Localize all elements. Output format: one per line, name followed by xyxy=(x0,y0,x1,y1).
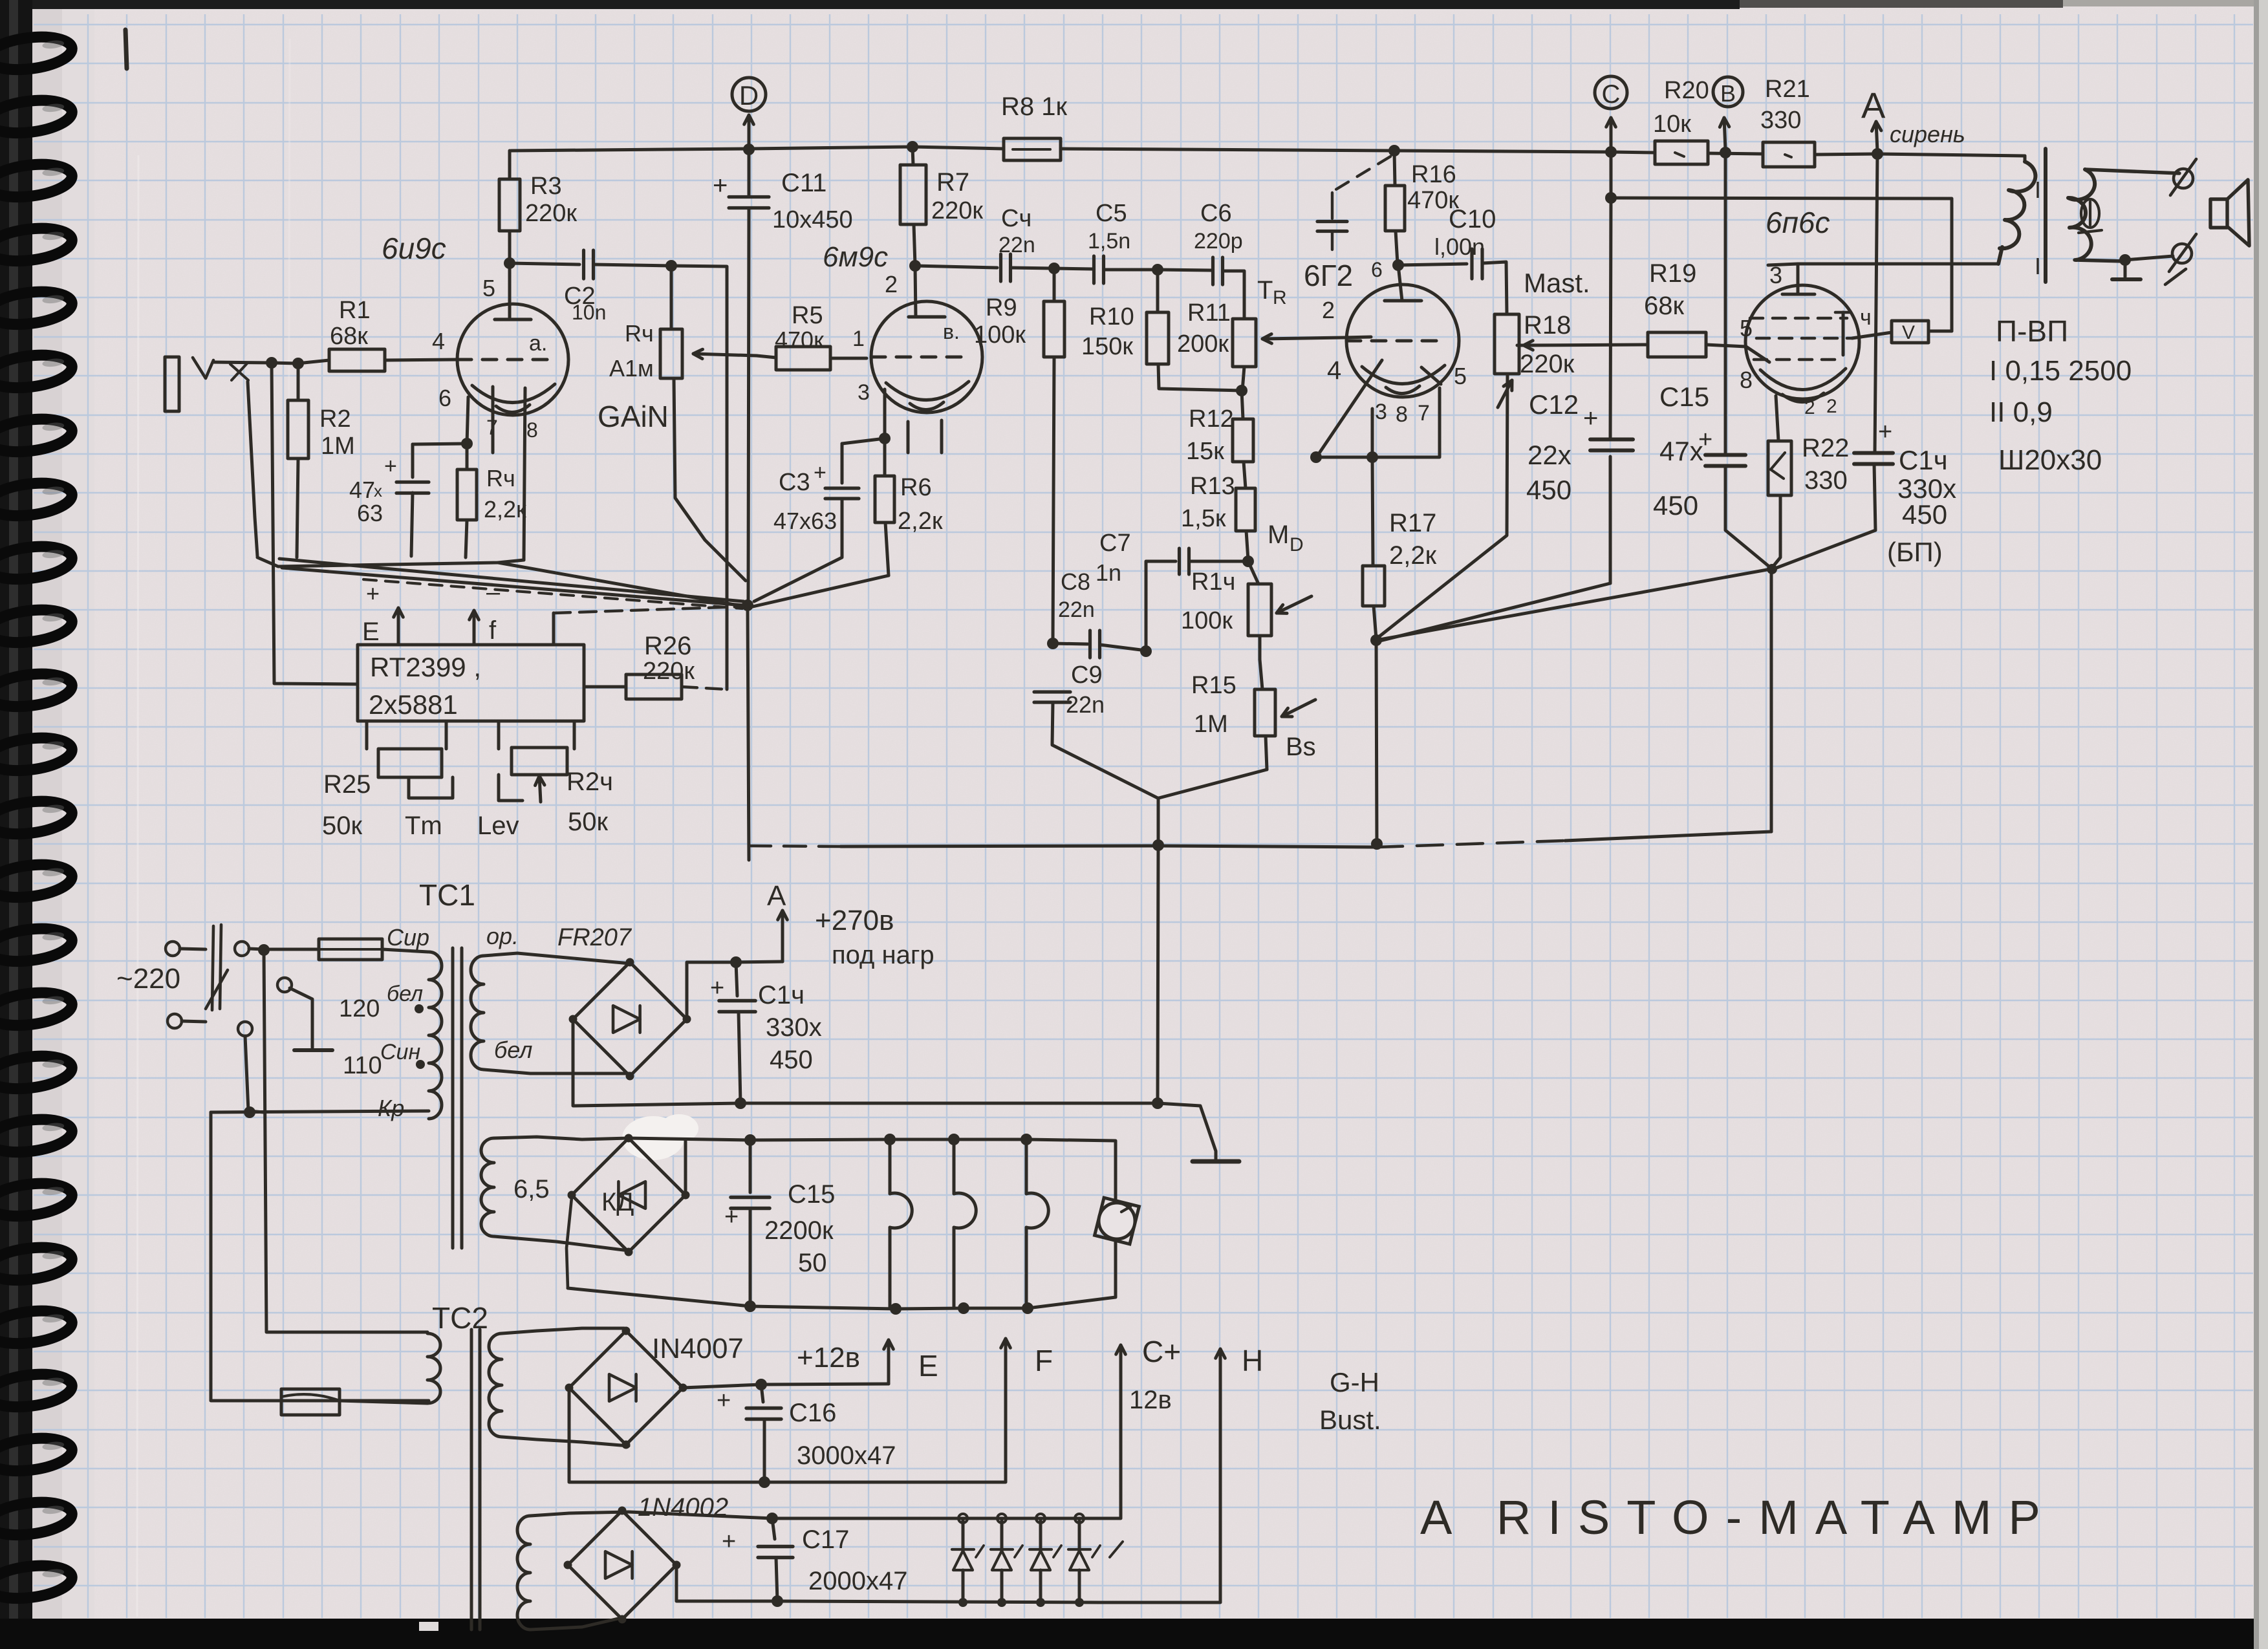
speaker terminal bottom xyxy=(2125,234,2196,285)
wire 6G2 cathode pins xyxy=(1316,388,1440,457)
svg-text:бел: бел xyxy=(387,982,423,1006)
svg-text:8: 8 xyxy=(526,418,538,442)
IC RT2399 box xyxy=(358,645,584,721)
svg-text:2,2к: 2,2к xyxy=(484,496,526,523)
junction ground bus xyxy=(735,1097,1163,1109)
svg-text:R6: R6 xyxy=(900,474,932,501)
svg-text:8: 8 xyxy=(1740,367,1753,393)
potentiometer R11 TR 200k xyxy=(1177,276,1344,391)
ground main xyxy=(1158,1103,1239,1161)
svg-text:E: E xyxy=(918,1349,938,1383)
svg-text:R1: R1 xyxy=(339,297,371,324)
svg-text:47x: 47x xyxy=(1659,436,1703,466)
node C xyxy=(1595,76,1627,149)
svg-text:D: D xyxy=(739,80,759,111)
resistor R17 xyxy=(1363,509,1437,606)
rectifier bridge 1N4007 xyxy=(565,1327,687,1449)
spiral coils xyxy=(0,33,74,74)
svg-text:1,5к: 1,5к xyxy=(1181,505,1226,532)
wire center down to ground bus xyxy=(1158,845,1158,1103)
arrow E 12v xyxy=(761,1340,938,1385)
wire R11 wiper to 6G2 grid xyxy=(1344,337,1371,338)
capacitor C12 xyxy=(1526,153,1633,505)
svg-text:2: 2 xyxy=(1804,397,1815,418)
junction E rail xyxy=(755,1379,767,1390)
svg-text:6,5: 6,5 xyxy=(513,1175,550,1203)
svg-text:RT2399 ,: RT2399 , xyxy=(370,652,481,682)
svg-text:C12: C12 xyxy=(1529,389,1579,420)
tap 120 terminal xyxy=(277,978,332,1050)
wire pin8 down xyxy=(493,387,525,560)
svg-text:A RISTO-MATAMP: A RISTO-MATAMP xyxy=(1420,1491,2057,1544)
svg-text:450: 450 xyxy=(1526,475,1571,505)
svg-text:R21: R21 xyxy=(1765,76,1810,103)
capacitor C8 xyxy=(1053,568,1146,658)
svg-text:C3: C3 xyxy=(779,469,810,496)
wire input to RT2399 xyxy=(272,363,358,684)
speaker icon xyxy=(2210,180,2249,246)
wire pin4 to V box xyxy=(1852,332,1892,338)
svg-text:6: 6 xyxy=(1371,258,1383,281)
rectifier bridge FR207 xyxy=(569,958,691,1081)
scanner top edge xyxy=(0,0,1740,9)
node D xyxy=(732,78,766,147)
svg-text:B: B xyxy=(1720,80,1736,107)
wire tone stack to ground node xyxy=(1052,702,1267,846)
svg-text:R11: R11 xyxy=(1187,299,1231,327)
svg-text:l,00n: l,00n xyxy=(1434,233,1485,260)
svg-text:TC1: TC1 xyxy=(419,878,475,912)
node C4 out xyxy=(1048,263,1060,274)
svg-text:+: + xyxy=(366,580,380,607)
resistor R7 xyxy=(900,147,983,265)
svg-text:IN4007: IN4007 xyxy=(652,1333,744,1364)
svg-text:R15: R15 xyxy=(1191,672,1237,699)
label tube V1 6i9s xyxy=(382,232,446,265)
wire cathode net down xyxy=(1770,572,1773,832)
svg-text:Сuн: Сuн xyxy=(380,1040,420,1064)
wire R18 bottom xyxy=(1376,374,1507,639)
svg-text:C15: C15 xyxy=(1659,382,1709,412)
wire R5 to GAIN wiper xyxy=(757,356,776,358)
node 6G2 below xyxy=(1310,451,1378,463)
junction mains xyxy=(258,944,270,956)
stray pen mark top-left xyxy=(125,30,127,69)
node A arrow xyxy=(1861,85,1886,151)
svg-text:1,5n: 1,5n xyxy=(1088,229,1130,253)
svg-text:4: 4 xyxy=(432,328,445,354)
svg-text:R19: R19 xyxy=(1649,259,1696,288)
svg-text:C: C xyxy=(1602,80,1621,109)
svg-text:C17: C17 xyxy=(802,1525,849,1554)
svg-text:2x5881: 2x5881 xyxy=(369,689,458,720)
svg-text:бел: бел xyxy=(494,1037,532,1063)
wire bottom LED rail xyxy=(676,1362,1220,1602)
label tube V2 6m9s xyxy=(823,241,888,273)
svg-text:КД: КД xyxy=(601,1188,634,1216)
junction C17 bottom xyxy=(772,1595,783,1607)
scanner right edge xyxy=(2258,0,2268,1649)
capacitor C2 xyxy=(510,250,671,324)
junction heater bottom xyxy=(744,1300,1033,1315)
svg-text:68к: 68к xyxy=(330,323,368,350)
capacitor C7 xyxy=(1096,530,1247,650)
svg-text:V: V xyxy=(1902,322,1915,343)
heater rail bottom xyxy=(567,1198,1116,1309)
capacitor C14 output 330x450 xyxy=(1773,154,1956,569)
svg-text:D: D xyxy=(1290,534,1304,555)
node 6G2 grid xyxy=(1392,259,1404,271)
junction bias bus xyxy=(1152,838,1383,851)
svg-text:x: x xyxy=(374,481,382,501)
resistor R22 330 xyxy=(1768,396,1849,568)
svg-text:C9: C9 xyxy=(1071,662,1103,689)
svg-text:П-ВП: П-ВП xyxy=(1996,314,2068,348)
svg-text:6: 6 xyxy=(438,385,451,411)
capacitor C16 xyxy=(717,1385,896,1482)
wire bridge1 plus xyxy=(687,962,736,1019)
wire V2 cathode to bias node xyxy=(753,576,889,607)
svg-text:Cч: Cч xyxy=(1001,205,1031,232)
junction LED rail xyxy=(766,1513,778,1524)
svg-text:2,2к: 2,2к xyxy=(898,508,943,535)
capacitor C11 xyxy=(713,151,853,601)
svg-text:10n: 10n xyxy=(572,301,606,324)
pilot lamp xyxy=(1095,1198,1139,1244)
wire jack tap down xyxy=(248,382,257,556)
svg-text:Bust.: Bust. xyxy=(1319,1405,1381,1435)
tube heater loops xyxy=(890,1139,1048,1308)
svg-text:220к: 220к xyxy=(643,658,695,685)
svg-text:7: 7 xyxy=(1418,401,1430,426)
svg-text:5: 5 xyxy=(1454,363,1467,389)
svg-text:330x: 330x xyxy=(766,1013,822,1042)
resistor R13 xyxy=(1181,462,1304,560)
junction heater top xyxy=(744,1134,1032,1146)
svg-text:Кр: Кр xyxy=(378,1095,404,1121)
svg-text:R22: R22 xyxy=(1802,434,1849,462)
mains plug terminals xyxy=(166,942,206,1028)
svg-text:R12: R12 xyxy=(1189,405,1234,433)
svg-text:10к: 10к xyxy=(1653,111,1691,138)
tube V2 heater stubs xyxy=(908,420,942,453)
fuse xyxy=(319,924,429,960)
svg-text:4: 4 xyxy=(1327,356,1341,385)
node C5 out xyxy=(1152,264,1163,275)
wire pin3 to OT xyxy=(1768,264,1998,265)
label Mast xyxy=(1524,268,1590,298)
wire pin4 diagonal xyxy=(1317,360,1382,456)
svg-text:10x450: 10x450 xyxy=(772,206,853,233)
node R13 R14 xyxy=(1242,555,1254,567)
svg-text:1n: 1n xyxy=(1096,559,1121,586)
transformer OT secondary xyxy=(2035,169,2179,279)
svg-text:110: 110 xyxy=(343,1052,382,1079)
junction tap xyxy=(244,1106,255,1118)
svg-text:22n: 22n xyxy=(1066,691,1105,718)
svg-text:f: f xyxy=(489,616,497,645)
arrow E supply xyxy=(362,580,403,646)
svg-text:T: T xyxy=(1257,276,1273,305)
svg-text:H: H xyxy=(1242,1344,1263,1377)
svg-text:a.: a. xyxy=(529,331,547,356)
resistor R16 xyxy=(1385,152,1459,264)
svg-text:R10: R10 xyxy=(1089,303,1134,330)
capacitor C6 xyxy=(1158,200,1244,319)
svg-text:220к: 220к xyxy=(931,197,983,224)
transformer TC2 secondary 2 xyxy=(517,1512,629,1630)
svg-text:GAiN: GAiN xyxy=(598,400,669,433)
svg-text:2: 2 xyxy=(1826,396,1837,417)
svg-text:C1ч: C1ч xyxy=(1899,445,1948,475)
svg-text:22n: 22n xyxy=(999,233,1035,257)
svg-text:3: 3 xyxy=(858,380,870,405)
label core size xyxy=(1998,444,2102,476)
junction C16 bottom xyxy=(759,1476,770,1488)
svg-text:15к: 15к xyxy=(1186,438,1224,465)
resistor R3 xyxy=(499,151,577,263)
transformer TC2 core xyxy=(471,1330,480,1630)
node below R11 xyxy=(1236,385,1247,396)
potentiometer R15 1M xyxy=(1191,660,1316,770)
svg-text:120: 120 xyxy=(339,995,380,1022)
svg-text:R9: R9 xyxy=(986,294,1017,321)
wire 6G2 down to node xyxy=(1372,457,1376,639)
label tube V4 6p6s xyxy=(1766,206,1830,239)
svg-text:M: M xyxy=(1268,521,1289,549)
svg-text:R17: R17 xyxy=(1389,509,1436,537)
svg-text:II 0,9: II 0,9 xyxy=(1989,396,2053,428)
label G-H Bust xyxy=(1319,1367,1381,1435)
transformer TC1 secondary 6.5 xyxy=(481,1137,629,1251)
tube V1 6i9s xyxy=(432,263,568,442)
svg-text:2200к: 2200к xyxy=(764,1216,834,1245)
svg-text:220p: 220p xyxy=(1194,229,1243,253)
svg-text:G-H: G-H xyxy=(1330,1367,1379,1397)
svg-text:8: 8 xyxy=(1396,402,1408,427)
arrow C+ 12v xyxy=(1116,1335,1181,1414)
svg-text:Lev: Lev xyxy=(477,812,519,840)
transformer TC1 core xyxy=(453,948,462,1248)
scanner bottom edge xyxy=(0,1619,2268,1649)
wire fuse to TC1 xyxy=(382,949,428,952)
capacitor C3 47x63 xyxy=(754,438,885,601)
svg-text:50: 50 xyxy=(798,1249,827,1277)
svg-text:+: + xyxy=(713,171,728,200)
svg-text:+: + xyxy=(384,454,397,479)
svg-text:C8: C8 xyxy=(1061,568,1090,595)
svg-text:+: + xyxy=(722,1528,736,1555)
wire C2 to corner xyxy=(671,266,727,689)
svg-text:–: – xyxy=(486,579,501,606)
tube V2 6m9s xyxy=(852,266,982,413)
svg-text:Сир: Сир xyxy=(387,924,429,951)
svg-text:ч: ч xyxy=(1860,305,1872,330)
svg-text:450: 450 xyxy=(1902,499,1947,530)
capacitor C15 47x450 xyxy=(1653,154,1771,568)
wire R18 wiper to R19 xyxy=(1524,341,1648,350)
capacitor C9 xyxy=(1034,662,1105,718)
node B xyxy=(1713,77,1743,150)
resistor R19 xyxy=(1644,259,1753,357)
capacitor C17 xyxy=(722,1518,907,1601)
svg-text:1: 1 xyxy=(852,327,865,351)
capacitor C15 psu 2200x50 xyxy=(724,1140,835,1306)
svg-text:22n: 22n xyxy=(1058,598,1095,622)
pin5 into 6p6s xyxy=(1746,347,1769,362)
resistor R2 xyxy=(288,363,355,557)
resistor R20 xyxy=(1653,77,1709,164)
svg-text:330: 330 xyxy=(1804,466,1848,495)
capacitor C1 47x63 xyxy=(349,444,467,556)
node cathode net xyxy=(1767,564,1777,574)
svg-text:+: + xyxy=(717,1387,731,1414)
potentiometer R24 Lev 50k xyxy=(477,721,613,840)
node stage1 plate xyxy=(504,257,515,269)
svg-text:~220: ~220 xyxy=(116,963,180,995)
node OT secondary xyxy=(2119,254,2131,266)
resistor R1 xyxy=(329,297,457,371)
arrow F psu xyxy=(1001,1339,1053,1377)
svg-text:50к: 50к xyxy=(568,808,608,836)
wire node to cathode net xyxy=(1376,569,1771,640)
svg-text:C5: C5 xyxy=(1096,200,1127,227)
transformer TC1 primary xyxy=(339,952,442,1121)
svg-text:6п6с: 6п6с xyxy=(1766,206,1830,239)
svg-text:FR207: FR207 xyxy=(557,924,632,951)
junction C14 psu top xyxy=(730,956,742,968)
label winding I xyxy=(1989,355,2132,387)
svg-text:1M: 1M xyxy=(321,433,355,460)
svg-text:Bs: Bs xyxy=(1286,733,1316,761)
svg-text:C11: C11 xyxy=(781,169,826,197)
correction fluid blob xyxy=(622,1116,684,1160)
svg-text:C7: C7 xyxy=(1099,530,1131,557)
transformer OT primary xyxy=(1998,156,2041,264)
svg-text:A1м: A1м xyxy=(609,355,654,382)
tube V4 6p6s xyxy=(1740,262,1872,418)
svg-text:R5: R5 xyxy=(792,302,823,329)
svg-text:R25: R25 xyxy=(323,770,371,799)
bias node junction xyxy=(742,599,753,611)
svg-text:E: E xyxy=(362,618,380,646)
transformer TC2 primary xyxy=(340,1333,440,1403)
potentiometer R18 Master 220k xyxy=(1495,311,1575,407)
wire feedback line xyxy=(1611,198,1952,331)
svg-text:под нагр: под нагр xyxy=(832,941,934,969)
svg-text:470к: 470к xyxy=(775,327,824,353)
svg-text:450: 450 xyxy=(770,1046,813,1074)
svg-text:(БП): (БП) xyxy=(1887,537,1943,567)
svg-text:100к: 100к xyxy=(974,321,1026,349)
svg-text:Rч: Rч xyxy=(486,465,515,491)
node C2 out xyxy=(665,260,677,272)
potentiometer R5 470k wire xyxy=(830,357,867,360)
resistor R26 xyxy=(584,632,727,699)
resistor R12 xyxy=(1186,391,1253,465)
wire top B+ bus xyxy=(511,147,2025,156)
wire big loop left xyxy=(211,1112,429,1401)
svg-text:3000x47: 3000x47 xyxy=(797,1441,896,1470)
node cathode V2 xyxy=(879,433,891,444)
wire C12 bottom diagonal xyxy=(1377,457,1610,641)
svg-text:+: + xyxy=(814,460,826,485)
resistor R9 xyxy=(974,268,1064,642)
paper crease xyxy=(137,155,138,1617)
svg-text:1M: 1M xyxy=(1194,711,1228,738)
svg-text:2: 2 xyxy=(1322,297,1335,323)
svg-text:R16: R16 xyxy=(1411,161,1456,188)
transformer TC1 secondary HV xyxy=(471,923,632,1073)
svg-text:R2ч: R2ч xyxy=(567,768,613,796)
svg-text:50к: 50к xyxy=(322,812,362,840)
svg-text:A: A xyxy=(1861,85,1886,125)
svg-text:R8 1к: R8 1к xyxy=(1001,92,1067,121)
svg-text:330: 330 xyxy=(1760,107,1801,134)
wire fan to bias node xyxy=(279,559,745,609)
svg-text:R13: R13 xyxy=(1190,473,1235,500)
svg-text:F: F xyxy=(1035,1344,1053,1377)
speaker terminal top xyxy=(2170,159,2196,195)
svg-text:6м9с: 6м9с xyxy=(823,241,888,273)
resistor R8 xyxy=(1001,92,1067,160)
capacitor C13 shield xyxy=(1317,156,1390,250)
LED indicators xyxy=(952,1514,1123,1607)
junction dots input xyxy=(266,357,304,369)
capacitor C14 psu xyxy=(710,962,822,1103)
resistor R4 cathode 2.2k xyxy=(457,397,526,557)
wire plate node to C4 xyxy=(915,266,997,268)
wire RT right pin xyxy=(554,607,744,644)
capacitor C4 xyxy=(999,205,1054,281)
node C8 junction left xyxy=(1047,638,1059,649)
svg-text:6и9с: 6и9с xyxy=(382,232,446,265)
svg-text:Mast.: Mast. xyxy=(1524,268,1590,298)
wire switch2 down xyxy=(245,1036,264,1112)
svg-text:5: 5 xyxy=(482,275,495,301)
arrow A plus270 xyxy=(736,880,934,969)
svg-text:ор.: ор. xyxy=(486,923,519,949)
potentiometer R14 100k xyxy=(1181,561,1312,660)
svg-text:R20: R20 xyxy=(1664,77,1709,104)
svg-text:2: 2 xyxy=(885,271,898,297)
wire node to bus xyxy=(1376,640,1377,846)
svg-text:+12в: +12в xyxy=(797,1342,860,1374)
junction dots on top bus xyxy=(743,141,1883,160)
svg-text:I: I xyxy=(2035,177,2041,203)
label sirene xyxy=(1890,121,1965,147)
wire switch to fuse xyxy=(249,949,319,949)
svg-text:R2: R2 xyxy=(319,405,351,433)
label 1N4007 xyxy=(652,1333,744,1364)
svg-text:Ш20x30: Ш20x30 xyxy=(1998,444,2102,476)
svg-text:C+: C+ xyxy=(1142,1335,1181,1368)
wire bias bus bottom xyxy=(749,832,1771,847)
notebook spine black edge xyxy=(0,0,32,1649)
input jack xyxy=(165,357,329,411)
label P-VP xyxy=(1996,314,2068,348)
rectifier bridge 1N4002 xyxy=(564,1507,681,1624)
mains switch xyxy=(206,925,252,1036)
svg-text:+: + xyxy=(1583,404,1598,433)
title ARISTO-MATAMP xyxy=(1420,1491,2057,1544)
svg-text:C6: C6 xyxy=(1200,200,1232,227)
svg-text:63: 63 xyxy=(357,500,383,526)
wire bridge1 minus xyxy=(573,1019,1158,1106)
svg-text:200к: 200к xyxy=(1177,330,1229,358)
svg-text:+270в: +270в xyxy=(815,905,894,936)
svg-text:R1ч: R1ч xyxy=(1191,568,1235,596)
